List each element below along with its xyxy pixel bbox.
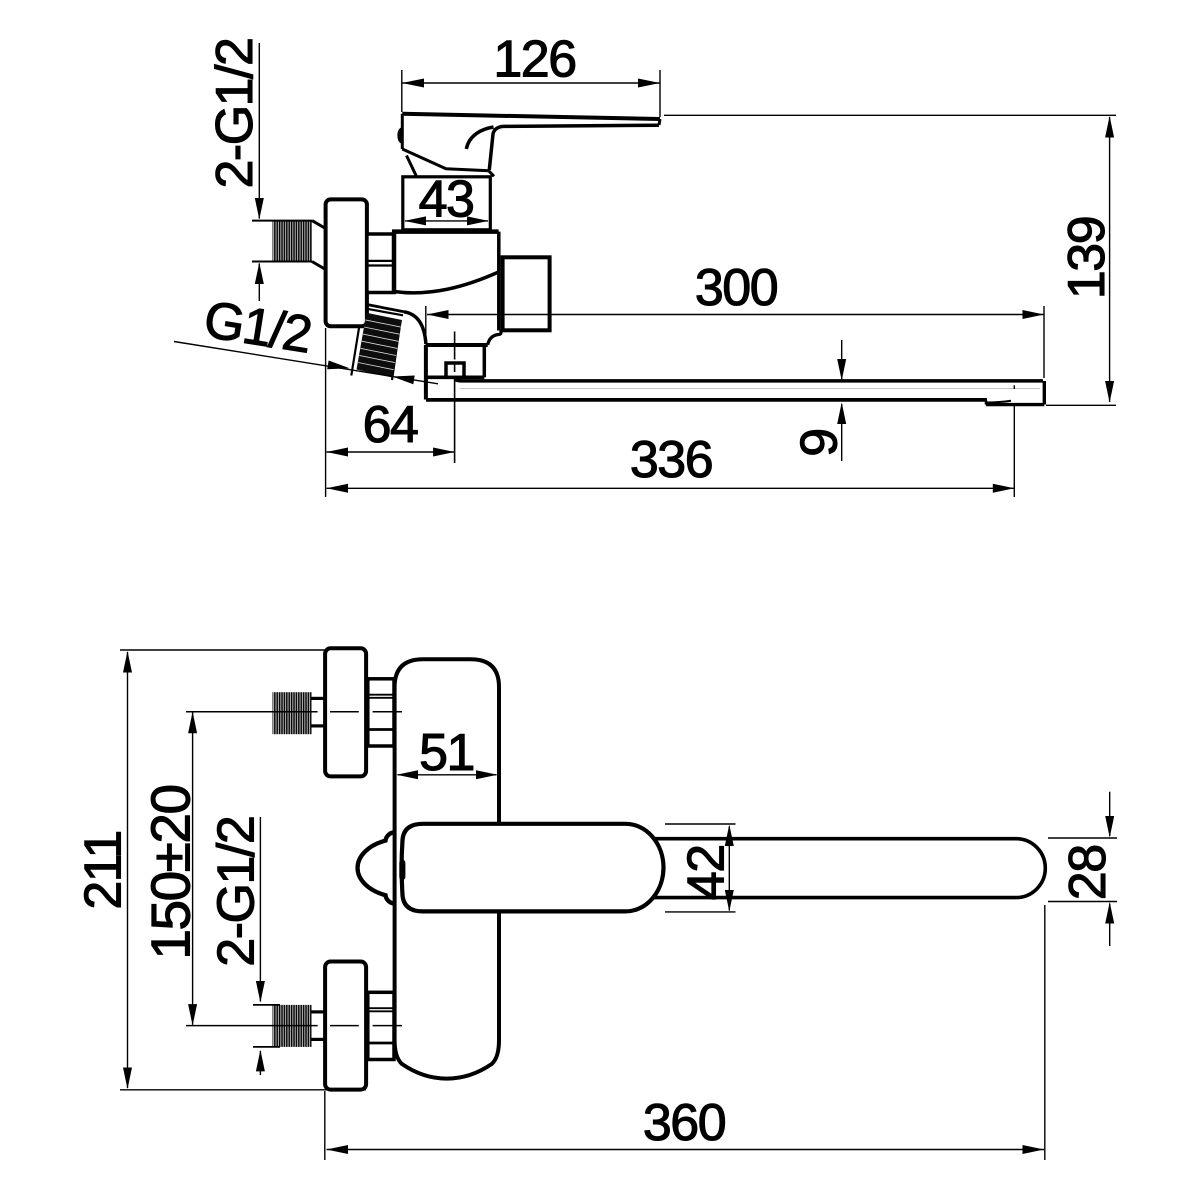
arrowhead leader G1/2 second bbox=[392, 376, 414, 385]
arrowhead dim 360 right bbox=[1023, 1145, 1045, 1154]
dim 9 bbox=[841, 340, 843, 379]
arrowhead dim 64 left bbox=[327, 448, 349, 457]
arrowhead leader 2-G1/2 down bbox=[255, 198, 264, 220]
dim 28 bbox=[1048, 837, 1117, 839]
arrowhead leader 2-G1/2 up (front) bbox=[256, 1050, 265, 1072]
arrowhead dim 300 right bbox=[1023, 310, 1045, 319]
wall nipple threads (left, side view) bbox=[252, 221, 326, 270]
upper hex nut (front view) bbox=[368, 679, 394, 746]
arrowhead leader 2-G1/2 down (front) bbox=[256, 981, 265, 1003]
arrowhead dim 336 left bbox=[327, 484, 349, 493]
dim 43 bbox=[405, 220, 488, 222]
centerlines of connections bbox=[186, 712, 402, 1026]
arrowhead dim 360 left bbox=[327, 1145, 349, 1154]
body (front view) bbox=[395, 659, 499, 1078]
lower escutcheon (front view) bbox=[325, 962, 366, 1090]
arrowhead leader 2-G1/2 up bbox=[255, 263, 264, 285]
arrowhead dim 150±20 bottom bbox=[188, 1004, 197, 1026]
arrowhead leader G1/2 first bbox=[327, 361, 349, 370]
svg-text:51: 51 bbox=[419, 724, 474, 782]
wall escutcheon (side view) bbox=[326, 199, 367, 326]
leader 2-G1/2 bbox=[259, 817, 261, 1002]
cartridge collar box (43 wide, side view) bbox=[403, 177, 491, 230]
svg-text:28: 28 bbox=[1059, 845, 1117, 900]
leader G1/2 bbox=[174, 342, 438, 384]
centerline spout root bbox=[454, 332, 456, 360]
arrowhead dim 28 lower bbox=[1105, 902, 1114, 924]
lower wall nipple threads (front view) bbox=[273, 1005, 326, 1047]
svg-text:2-G1/2: 2-G1/2 bbox=[206, 39, 264, 189]
spout (front view, behind handle) bbox=[600, 839, 1045, 898]
svg-text:9: 9 bbox=[791, 429, 849, 456]
shower outlet threads (dark band) bbox=[357, 313, 403, 378]
arrowhead dim 150±20 top bbox=[188, 712, 197, 734]
dim 336 bbox=[327, 487, 1015, 489]
arrowhead dim 211 bottom bbox=[123, 1068, 132, 1090]
arrowhead dim 139 bottom bbox=[1105, 381, 1114, 403]
leader 2-G1/2 bbox=[258, 43, 260, 219]
shower outlet stub flanks bbox=[351, 305, 404, 381]
arrowhead dim 64 right bbox=[433, 448, 455, 457]
svg-text:43: 43 bbox=[419, 171, 474, 229]
spout root block + step (side view) bbox=[404, 312, 501, 400]
dim 126 bbox=[402, 82, 660, 84]
dim 150±20 bbox=[192, 713, 194, 1025]
upper escutcheon (front view) bbox=[325, 648, 366, 776]
arrowhead dim 126 right bbox=[638, 79, 660, 88]
arrowhead dim 43 left bbox=[405, 216, 427, 225]
svg-text:150±20: 150±20 bbox=[139, 785, 201, 959]
handle screw mark (front view) bbox=[399, 860, 405, 880]
dim 211 bbox=[127, 652, 129, 1088]
handle paddle (front view) bbox=[402, 824, 664, 912]
arrowhead dim 43 right bbox=[467, 216, 489, 225]
svg-text:126: 126 bbox=[493, 31, 575, 89]
arrowhead dim 9 upper bbox=[837, 359, 846, 381]
shower outlet bump (front view) bbox=[358, 832, 395, 903]
arrowhead dim 42 top bbox=[725, 825, 734, 847]
handle set-screw dot bbox=[397, 127, 402, 144]
svg-text:336: 336 bbox=[630, 431, 712, 489]
dim 42 bbox=[728, 827, 730, 911]
aerator square (side view) bbox=[446, 363, 464, 377]
arrowhead dim 126 left bbox=[402, 79, 424, 88]
svg-text:139: 139 bbox=[1058, 217, 1116, 299]
outlet block (side view) bbox=[503, 257, 550, 330]
svg-text:42: 42 bbox=[678, 845, 736, 900]
long spout (side view) bbox=[426, 380, 1044, 405]
lower hex nut (front view) bbox=[368, 992, 394, 1059]
arrowhead dim 336 right bbox=[993, 484, 1015, 493]
hex nut (side view) bbox=[367, 234, 394, 293]
svg-text:300: 300 bbox=[695, 259, 777, 317]
arrowhead dim 51 left bbox=[397, 770, 419, 779]
dim 51 bbox=[398, 774, 497, 776]
svg-text:64: 64 bbox=[363, 396, 418, 454]
svg-text:211: 211 bbox=[74, 831, 132, 909]
svg-text:360: 360 bbox=[643, 1094, 725, 1152]
arrowhead dim 9 lower bbox=[837, 403, 846, 425]
arrowhead dim 51 right bbox=[476, 770, 498, 779]
mixer body block (side view) bbox=[392, 232, 499, 331]
dim 64 bbox=[327, 451, 455, 453]
lever handle (side view) bbox=[402, 114, 660, 177]
arrowhead dim 28 upper bbox=[1105, 816, 1114, 838]
svg-text:2-G1/2: 2-G1/2 bbox=[207, 817, 265, 967]
dim 360 bbox=[327, 1149, 1045, 1151]
arrowhead dim 42 bottom bbox=[725, 890, 734, 912]
dim 300 bbox=[427, 314, 1044, 316]
arrowhead dim 300 left bbox=[427, 310, 449, 319]
upper wall nipple threads (front view) bbox=[273, 692, 326, 734]
arrowhead dim 139 top bbox=[1105, 116, 1114, 138]
arrowhead dim 211 top bbox=[123, 651, 132, 673]
dim 139 bbox=[664, 114, 1116, 116]
